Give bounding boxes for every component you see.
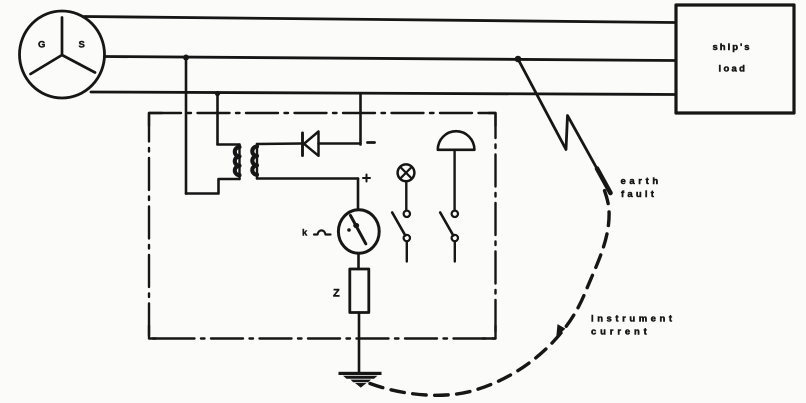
wire (bottom bus down to primary top) — [216, 94, 219, 145]
wire (bell to switch S2) — [453, 150, 455, 210]
label instrument current — [591, 314, 676, 338]
svg-text:Z: Z — [333, 288, 340, 300]
node plus terminal label — [363, 175, 370, 182]
svg-text:instrument: instrument — [591, 314, 676, 325]
node B (tap on bottom bus) — [215, 91, 220, 96]
svg-text:fault: fault — [621, 189, 657, 200]
switch S2 (bell switch, open) — [440, 211, 458, 262]
transformer T1 secondary winding — [252, 144, 257, 179]
transformer T1 primary winding — [186, 145, 240, 194]
instrument current path (dashed return loop) — [370, 191, 609, 396]
bell B1 (alarm bell dome) — [438, 131, 475, 150]
label k~ (meter type) — [302, 228, 331, 239]
wire (lamp to switch S1) — [405, 181, 407, 210]
svg-text:current: current — [591, 327, 651, 338]
node A (tap on middle bus) — [183, 55, 189, 61]
wire (diode to minus terminal) — [319, 142, 361, 145]
wire (middle bus down to primary bottom) — [185, 58, 188, 194]
node earth-fault point on middle bus — [515, 56, 522, 63]
svg-text:G: G — [38, 40, 45, 51]
svg-text:S: S — [79, 40, 85, 51]
earth fault arrow (lightning bolt) — [518, 59, 611, 193]
ground (earth electrode symbol) — [339, 372, 382, 388]
svg-text:k: k — [302, 228, 308, 239]
svg-text:ship's: ship's — [713, 42, 752, 53]
meter M1 (galvanometer) — [338, 210, 379, 253]
lamp LP1 (indicator lamp with X) — [398, 164, 415, 181]
ship's load box — [676, 5, 794, 113]
label earth fault — [621, 176, 662, 200]
wire bus line 1 (top phase) — [84, 17, 675, 23]
wire bus line 2 (middle phase) — [105, 57, 676, 61]
node minus terminal label — [368, 141, 375, 144]
wire (secondary bottom / plus rail) — [257, 177, 358, 180]
svg-text:load: load — [719, 64, 748, 75]
enclosure (dash-dot boundary of detection unit) — [149, 113, 496, 339]
generator G1 — [20, 11, 105, 98]
wire (bottom bus down to minus terminal) — [359, 95, 362, 145]
diode D1 (cathode bar left, triangle pointing left) — [303, 132, 319, 156]
switch S1 (lamp switch, open) — [392, 211, 410, 262]
wire (meter to resistor Z) — [357, 255, 360, 270]
resistor Z — [350, 269, 369, 313]
wire (resistor to earth) — [358, 313, 361, 373]
svg-text:earth: earth — [621, 176, 662, 187]
wire bus line 3 (bottom phase) — [91, 92, 675, 95]
wire (secondary top to diode) — [257, 142, 302, 145]
wire (plus terminal down to meter) — [357, 179, 360, 210]
label Z — [333, 288, 340, 300]
